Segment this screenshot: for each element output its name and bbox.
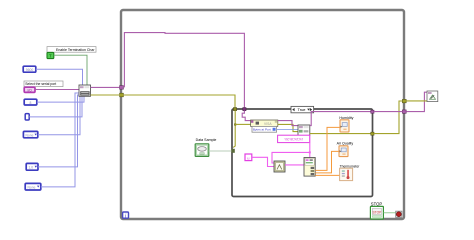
svg-text:1.0: 1.0 (29, 166, 34, 170)
pink junction (309, 151, 311, 153)
wire olive to close node (406, 100, 427, 102)
VISA configure serial port node (79, 85, 91, 96)
svg-text:True: True (297, 107, 306, 112)
wire flow control (41, 93, 79, 187)
wire purple up and across top (124, 33, 244, 108)
purple tunnel on loop left border (120, 86, 124, 90)
wire STOP to condition (383, 212, 395, 214)
pink string constant (278, 135, 310, 142)
wire orange to thermometer (315, 174, 339, 176)
while loop (121, 10, 404, 219)
wire pink branch to match (272, 152, 310, 163)
wire olive inside case down left side (233, 111, 235, 148)
svg-text:8: 8 (30, 101, 32, 105)
wire olive property to read (278, 124, 298, 131)
wire purple jog to property node (242, 111, 251, 121)
svg-text:%f;%f;%f;%f: %f;%f;%f;%f (285, 138, 303, 142)
control data bits (24, 99, 37, 105)
control flow control (25, 183, 41, 190)
Data Sample boolean control (195, 144, 209, 157)
wire data bits (37, 97, 84, 103)
wire stop bits (38, 95, 79, 167)
wire VISA resource to config (35, 89, 79, 91)
wire none1 (38, 97, 80, 135)
VISA read node (298, 125, 310, 136)
control stop bits (26, 163, 38, 170)
wire orange to humidity (315, 127, 340, 170)
svg-text:STOP: STOP (372, 210, 382, 214)
VISA close node (427, 91, 438, 102)
thermometer indicator (340, 168, 353, 180)
wire olive to loop edge and up (374, 101, 402, 134)
label Enable Termination Char (47, 47, 96, 53)
STOP boolean terminal (370, 206, 383, 219)
humidity indicator (340, 120, 349, 132)
wire parity (29, 97, 82, 117)
scan from string node (304, 158, 315, 177)
case selector terminal (231, 149, 234, 153)
wire boolean Data Sample to case selector (209, 150, 233, 152)
svg-text:T: T (49, 54, 52, 59)
wire boolean to config (54, 55, 87, 85)
wire pink read data down (309, 136, 311, 158)
olive tunnel case right (371, 132, 374, 135)
olive tunnel on case top (233, 108, 236, 111)
wire purple case to loop edge (374, 111, 402, 113)
svg-text:None: None (26, 133, 34, 137)
svg-text:Select the serial port: Select the serial port (25, 82, 56, 86)
wire olive read out to case edge (310, 133, 371, 135)
control parity (25, 114, 29, 120)
case structure (232, 109, 373, 197)
svg-text:None: None (28, 186, 36, 190)
svg-text:u: u (247, 155, 249, 160)
svg-text:9600: 9600 (26, 68, 34, 72)
control error None (23, 131, 37, 137)
wire baud rate (36, 69, 83, 85)
loop condition terminal (396, 211, 402, 217)
wire pink const to match (252, 157, 274, 166)
iteration terminal i (123, 212, 129, 219)
svg-text:Air Quality: Air Quality (337, 142, 354, 146)
olive junction (234, 123, 236, 125)
case selector label (291, 106, 314, 112)
wire olive config out across (91, 95, 236, 107)
svg-text:VISA: VISA (264, 122, 272, 126)
purple tunnel on case top (243, 108, 246, 111)
purple tunnel loop right (402, 110, 406, 113)
space string constant (245, 154, 252, 161)
wire purple config out to tunnel (91, 86, 120, 88)
svg-text:Data Sample: Data Sample (196, 138, 217, 142)
olive tunnel loop right (402, 99, 406, 102)
wire orange to air quality (315, 151, 339, 173)
control 9600 (baud rate) (23, 66, 36, 72)
wire pink match to scan (285, 164, 304, 166)
match pattern node (274, 161, 285, 172)
svg-text:Bytes at Port: Bytes at Port (253, 128, 271, 132)
purple tunnel case right (371, 110, 374, 113)
wire purple read out up to case edge (310, 112, 371, 126)
svg-text:I/O: I/O (27, 88, 32, 92)
property node VISA (251, 120, 278, 126)
wire olive branch to property node (235, 123, 250, 125)
boolean constant T (47, 52, 54, 58)
wire purple to close node (406, 92, 427, 111)
VISA resource control (24, 87, 35, 92)
svg-text:STOP: STOP (371, 201, 383, 206)
label Select the serial port (24, 81, 63, 87)
olive tunnel on loop left border (120, 93, 124, 97)
svg-text:Enable Termination Char: Enable Termination Char (56, 48, 95, 52)
wire blue byte count (277, 128, 298, 130)
air quality indicator (339, 146, 348, 157)
wire purple property to read (278, 121, 298, 126)
property Bytes at Port (252, 126, 277, 132)
